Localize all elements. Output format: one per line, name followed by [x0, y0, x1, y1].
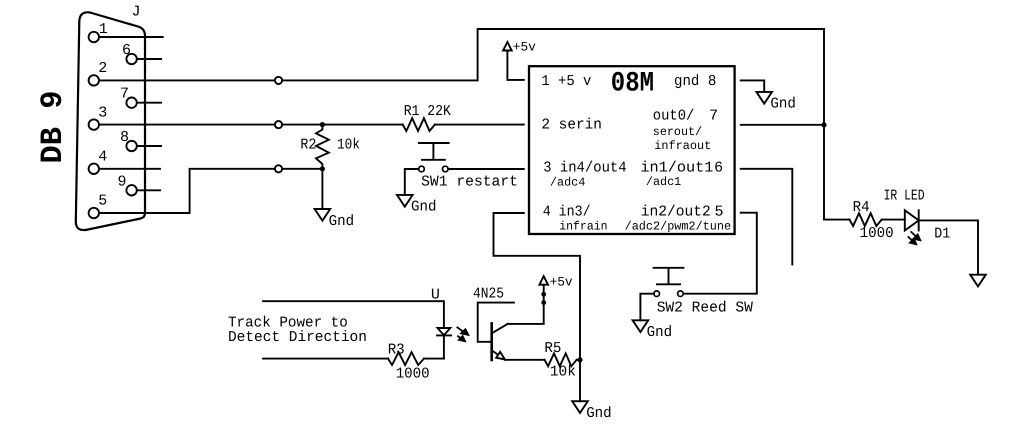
svg-text:Gnd: Gnd [411, 199, 437, 216]
wire pin9 stub [137, 189, 160, 191]
svg-text:gnd 8: gnd 8 [674, 73, 716, 90]
svg-text:1 +5 v: 1 +5 v [541, 73, 591, 90]
wire chip pin6 dangling [741, 169, 793, 265]
svg-text:1000: 1000 [860, 225, 894, 242]
svg-text:/adc1: /adc1 [646, 175, 681, 189]
svg-text:4 in3/: 4 in3/ [543, 204, 591, 221]
svg-text:5: 5 [98, 193, 107, 210]
wire R1 to chip pin2 [435, 124, 524, 126]
wire R3 to LED [424, 358, 444, 360]
svg-text:infraout: infraout [654, 139, 711, 153]
wire pin2 to top route [99, 29, 824, 220]
wire LED to right drop [919, 220, 978, 274]
switch SW2 pushbutton [654, 268, 684, 285]
wire track power bottom [263, 358, 388, 360]
svg-text:SW2 Reed SW: SW2 Reed SW [657, 300, 753, 317]
svg-text:IR LED: IR LED [884, 188, 925, 205]
pin 5 circle [89, 208, 99, 218]
LED opto cathode bar [437, 334, 451, 336]
svg-text:infrain: infrain [559, 219, 607, 233]
svg-text:3 in4/out4: 3 in4/out4 [543, 160, 626, 177]
svg-text:2: 2 [98, 60, 107, 77]
svg-text:Detect Direction: Detect Direction [228, 329, 367, 346]
wire SW2 left to ground [640, 294, 654, 321]
node open circle on serin wire [275, 121, 282, 128]
svg-text:10k: 10k [550, 364, 576, 381]
transistor Q1 4N25 collector lead [492, 324, 508, 333]
wire SW1 left to ground [405, 169, 419, 195]
svg-text:Gnd: Gnd [586, 405, 612, 422]
svg-text:Gnd: Gnd [329, 213, 355, 230]
power +5v symbol above 4N25 [539, 276, 548, 285]
wire +5v to collector [508, 285, 544, 324]
pin 6 circle [126, 54, 136, 64]
pin 9 circle [126, 185, 136, 195]
ground symbol for D1 [970, 275, 986, 287]
wire pin1 stub [99, 36, 163, 38]
SW1 terminal circle left [419, 166, 425, 172]
LED D1 emission arrow 2 [908, 236, 917, 244]
svg-text:7: 7 [709, 108, 718, 125]
SW1 terminal circle right [443, 166, 449, 172]
svg-text:R2: R2 [300, 136, 316, 153]
svg-text:serout/: serout/ [653, 125, 702, 139]
wire chip pin7 to junction [741, 124, 824, 126]
node junction serin-R2 [320, 122, 325, 127]
wire junction to R4 [824, 219, 850, 221]
transistor Q1 emitter arrowhead [496, 352, 505, 360]
wire serin from pin3 [99, 124, 403, 126]
wire pin4 stub [99, 168, 160, 170]
svg-text:SW1 restart: SW1 restart [421, 174, 518, 191]
svg-text:in2/out2: in2/out2 [641, 204, 711, 221]
wire chip pin4 to R5 junction [494, 213, 581, 360]
wire track power top [263, 301, 444, 328]
svg-text:R1 22K: R1 22K [404, 103, 451, 120]
wire pin6 stub [137, 58, 161, 60]
svg-text:J: J [132, 4, 141, 21]
node junction R5 right [577, 357, 582, 362]
LED opto emission arrow 1 [457, 327, 469, 335]
svg-text:Gnd: Gnd [647, 324, 673, 341]
svg-text:+5v: +5v [513, 39, 536, 54]
ground symbol below SW2 [633, 320, 649, 332]
wire pin5 up to ground rail [99, 169, 322, 213]
svg-text:U: U [431, 287, 440, 304]
node open circle on ground rail [275, 165, 282, 172]
resistor R2 [316, 125, 329, 169]
LED D1 triangle [905, 210, 919, 230]
pin 8 circle [126, 141, 136, 151]
pin 2 circle [89, 75, 99, 85]
svg-text:R5: R5 [544, 340, 561, 357]
svg-text:08M: 08M [611, 69, 654, 100]
wire pin7 stub [137, 102, 161, 104]
wire chip pin8 to ground [741, 80, 765, 92]
op-amp U1 chip 08M body [529, 66, 735, 234]
ground symbol below R5 junction [572, 401, 588, 413]
wire pin8 stub [137, 145, 161, 147]
resistor R4 [850, 213, 882, 226]
pin 4 circle [89, 164, 99, 174]
pin 3 circle [89, 119, 99, 129]
svg-text:9: 9 [118, 173, 127, 190]
4N25 outline bracket [478, 303, 514, 342]
svg-text:D1: D1 [934, 226, 950, 243]
wire SW1 right to chip pin3 [448, 168, 524, 170]
wire junction down to ground [579, 360, 581, 401]
pin 1 circle [89, 32, 99, 42]
wire chip pin5 to SW2 [683, 213, 757, 294]
svg-text:8: 8 [120, 129, 129, 146]
svg-text:6: 6 [714, 160, 723, 177]
svg-text:/adc2/pwm2/tune: /adc2/pwm2/tune [625, 220, 732, 234]
power +5v symbol near chip pin1 [503, 42, 512, 51]
transistor Q1 base bar [490, 324, 493, 361]
SW2 terminal circle left [654, 291, 660, 297]
svg-text:4: 4 [98, 149, 107, 166]
pin 7 circle [126, 98, 136, 108]
svg-text:10k: 10k [337, 137, 360, 154]
svg-text:out0/: out0/ [653, 108, 695, 125]
wire R5 to junction [577, 359, 580, 361]
transistor Q1 emitter lead [492, 350, 506, 360]
svg-text:1000: 1000 [396, 365, 430, 382]
wire +5v to chip pin1 [507, 51, 523, 80]
svg-text:R4: R4 [853, 199, 870, 216]
svg-text:1: 1 [99, 21, 108, 38]
svg-text:R3: R3 [388, 342, 405, 359]
svg-text:2 serin: 2 serin [541, 116, 602, 133]
node junction pin7 rail [821, 122, 826, 127]
svg-text:Gnd: Gnd [770, 96, 796, 113]
node junction R2 bottom [320, 166, 325, 171]
svg-text:6: 6 [122, 42, 131, 59]
LED D1 cathode bar [918, 210, 920, 230]
svg-text:3: 3 [98, 104, 107, 121]
ground symbol below SW1 [397, 195, 413, 207]
node open circle on pin2 wire [275, 77, 282, 84]
ground symbol pin8 [756, 92, 772, 104]
resistor R1 [403, 118, 435, 131]
LED opto emission arrow 2 [457, 336, 465, 342]
svg-text:+5v: +5v [550, 274, 573, 289]
wire R2 bottom to ground [321, 169, 323, 209]
svg-text:5: 5 [715, 204, 724, 221]
connector J DB9 outline [76, 12, 145, 230]
svg-text:/adc4: /adc4 [550, 176, 586, 190]
resistor R5 [545, 353, 577, 366]
node junction dots on +5v stem [541, 292, 546, 297]
svg-text:4N25: 4N25 [473, 286, 504, 303]
switch SW1 restart pushbutton [419, 143, 449, 160]
svg-text:DB 9: DB 9 [36, 91, 71, 164]
LED opto anode triangle [438, 328, 451, 335]
LED D1 emission arrow 1 [911, 231, 921, 240]
SW2 terminal circle right [678, 291, 684, 297]
wire LED to bottom rail [443, 335, 445, 358]
wire R4 to LED [882, 219, 905, 221]
resistor R3 [388, 352, 424, 365]
svg-text:7: 7 [120, 86, 129, 103]
wire emitter to R5 [505, 359, 544, 361]
ground symbol below R2 [315, 209, 331, 221]
